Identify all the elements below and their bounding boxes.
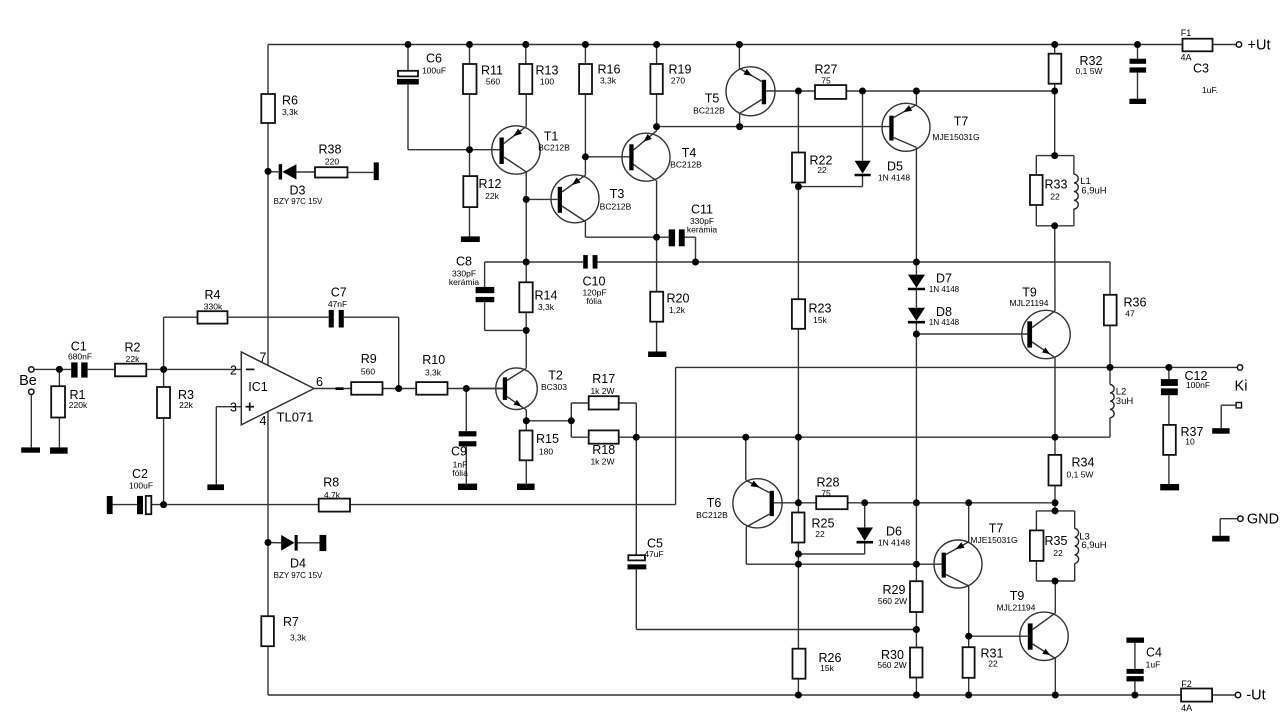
svg-text:1N 4148: 1N 4148 xyxy=(929,285,960,294)
svg-text:R14: R14 xyxy=(535,289,558,303)
svg-text:R11: R11 xyxy=(481,64,503,78)
svg-text:MJE15031G: MJE15031G xyxy=(970,535,1017,545)
svg-text:MJL21194: MJL21194 xyxy=(1009,298,1048,308)
svg-text:GND: GND xyxy=(1247,512,1279,528)
svg-text:T1: T1 xyxy=(544,130,559,144)
svg-text:22k: 22k xyxy=(179,400,193,410)
svg-text:fólia: fólia xyxy=(452,468,468,478)
svg-text:75: 75 xyxy=(821,76,831,86)
svg-text:R23: R23 xyxy=(809,302,832,316)
svg-text:1k 2W: 1k 2W xyxy=(590,386,614,396)
svg-text:100: 100 xyxy=(540,77,554,87)
svg-text:1uF.: 1uF. xyxy=(1202,85,1218,95)
svg-text:3,3k: 3,3k xyxy=(600,76,617,86)
svg-text:22k: 22k xyxy=(126,354,140,364)
svg-text:D7: D7 xyxy=(936,272,952,286)
svg-text:C8: C8 xyxy=(456,255,472,269)
svg-text:BC212B: BC212B xyxy=(670,160,702,170)
svg-text:6,9uH: 6,9uH xyxy=(1081,540,1106,551)
svg-text:7: 7 xyxy=(260,351,267,365)
svg-text:3uH: 3uH xyxy=(1116,396,1134,407)
svg-text:C2: C2 xyxy=(132,467,148,481)
svg-text:15k: 15k xyxy=(813,315,827,325)
svg-text:R33: R33 xyxy=(1045,178,1068,192)
svg-text:330k: 330k xyxy=(204,302,223,312)
svg-text:-Ut: -Ut xyxy=(1246,688,1265,704)
svg-text:T9: T9 xyxy=(1010,589,1025,603)
svg-text:T7: T7 xyxy=(954,115,969,129)
svg-text:R16: R16 xyxy=(598,63,621,77)
svg-text:22: 22 xyxy=(1050,192,1060,202)
svg-text:T3: T3 xyxy=(610,187,625,201)
svg-text:100uF: 100uF xyxy=(422,66,446,76)
svg-text:1N 4148: 1N 4148 xyxy=(878,173,910,183)
svg-text:6: 6 xyxy=(316,375,323,389)
svg-text:4,7k: 4,7k xyxy=(324,490,341,500)
svg-text:F1: F1 xyxy=(1181,28,1192,38)
svg-text:680nF: 680nF xyxy=(68,352,92,362)
svg-text:BZY 97C 15V: BZY 97C 15V xyxy=(274,571,323,580)
svg-text:kerámia: kerámia xyxy=(449,277,480,287)
svg-text:0,1 5W: 0,1 5W xyxy=(1076,66,1103,76)
svg-text:C7: C7 xyxy=(331,286,347,300)
svg-text:3,3k: 3,3k xyxy=(290,633,307,643)
svg-text:3,3k: 3,3k xyxy=(538,302,555,312)
svg-text:R19: R19 xyxy=(669,63,692,77)
svg-text:22: 22 xyxy=(988,659,998,669)
svg-text:C11: C11 xyxy=(691,203,713,217)
svg-text:R27: R27 xyxy=(815,63,838,77)
svg-text:R36: R36 xyxy=(1124,296,1147,310)
svg-text:1N 4148: 1N 4148 xyxy=(929,318,960,327)
svg-text:D5: D5 xyxy=(887,160,903,174)
svg-text:D4: D4 xyxy=(290,557,306,571)
svg-text:560 2W: 560 2W xyxy=(877,660,906,670)
svg-text:Ki: Ki xyxy=(1235,379,1248,395)
svg-text:C6: C6 xyxy=(426,52,442,66)
svg-text:1k 2W: 1k 2W xyxy=(590,457,614,467)
svg-text:BC212B: BC212B xyxy=(538,143,570,153)
svg-text:TL071: TL071 xyxy=(277,410,314,425)
svg-text:MJE15031G: MJE15031G xyxy=(932,132,979,142)
svg-text:3: 3 xyxy=(230,401,237,415)
svg-text:R17: R17 xyxy=(592,372,615,386)
svg-text:560: 560 xyxy=(361,367,375,377)
svg-text:22: 22 xyxy=(815,529,825,539)
svg-text:R6: R6 xyxy=(282,94,298,108)
svg-text:BC212B: BC212B xyxy=(693,106,725,116)
svg-text:R13: R13 xyxy=(536,64,559,78)
svg-text:3,3k: 3,3k xyxy=(282,107,299,117)
svg-text:R34: R34 xyxy=(1072,456,1095,470)
svg-text:R7: R7 xyxy=(283,615,299,629)
svg-text:4A: 4A xyxy=(1181,703,1192,713)
svg-text:220k: 220k xyxy=(69,400,88,410)
svg-text:75: 75 xyxy=(821,488,831,498)
svg-text:47nF: 47nF xyxy=(328,299,347,309)
svg-text:R35: R35 xyxy=(1045,534,1068,548)
svg-text:C10: C10 xyxy=(583,275,606,289)
svg-text:R12: R12 xyxy=(479,177,502,191)
svg-text:4: 4 xyxy=(260,414,267,428)
svg-text:R2: R2 xyxy=(125,341,141,355)
svg-text:D8: D8 xyxy=(936,305,952,319)
svg-text:T4: T4 xyxy=(682,146,697,160)
svg-text:BZY 97C 15V: BZY 97C 15V xyxy=(274,197,323,206)
svg-text:47: 47 xyxy=(1125,309,1135,319)
svg-text:BC212B: BC212B xyxy=(696,510,728,520)
svg-text:47uF: 47uF xyxy=(644,549,663,559)
svg-text:R9: R9 xyxy=(361,352,377,366)
svg-text:R29: R29 xyxy=(883,583,906,597)
svg-text:D6: D6 xyxy=(886,525,902,539)
svg-text:T2: T2 xyxy=(548,369,563,383)
svg-text:270: 270 xyxy=(671,76,685,86)
svg-text:T7: T7 xyxy=(989,522,1004,536)
svg-text:15k: 15k xyxy=(820,663,834,673)
svg-text:Be: Be xyxy=(19,373,37,389)
svg-text:T6: T6 xyxy=(707,496,722,510)
svg-text:22: 22 xyxy=(1053,548,1063,558)
svg-text:6,9uH: 6,9uH xyxy=(1081,186,1106,197)
svg-text:BC303: BC303 xyxy=(541,382,567,392)
svg-text:0,1 5W: 0,1 5W xyxy=(1067,470,1094,480)
svg-text:kerámia: kerámia xyxy=(687,225,718,235)
svg-text:R8: R8 xyxy=(323,476,339,490)
svg-text:fólia: fólia xyxy=(586,296,602,306)
svg-text:1,2k: 1,2k xyxy=(669,305,686,315)
svg-text:220: 220 xyxy=(325,157,339,167)
svg-text:560: 560 xyxy=(486,77,500,87)
svg-text:4A: 4A xyxy=(1180,53,1191,63)
svg-text:1uF: 1uF xyxy=(1146,660,1161,670)
svg-text:MJL21194: MJL21194 xyxy=(996,603,1035,613)
svg-text:BC212B: BC212B xyxy=(600,202,632,212)
svg-text:22: 22 xyxy=(817,165,827,175)
svg-text:1N 4148: 1N 4148 xyxy=(878,538,910,548)
svg-text:R10: R10 xyxy=(422,353,445,367)
svg-text:100nF: 100nF xyxy=(1186,380,1210,390)
svg-text:R38: R38 xyxy=(319,143,342,157)
svg-text:22k: 22k xyxy=(485,191,499,201)
svg-text:R20: R20 xyxy=(667,292,690,306)
svg-text:10: 10 xyxy=(1185,437,1195,447)
svg-text:D3: D3 xyxy=(290,184,306,198)
svg-text:C3: C3 xyxy=(1193,62,1209,76)
svg-text:3,3k: 3,3k xyxy=(425,368,442,378)
svg-text:C4: C4 xyxy=(1146,646,1162,660)
svg-text:+Ut: +Ut xyxy=(1248,38,1271,54)
svg-text:C9: C9 xyxy=(451,445,467,459)
svg-text:100uF: 100uF xyxy=(129,481,153,491)
svg-text:2: 2 xyxy=(230,364,237,378)
svg-text:T5: T5 xyxy=(705,92,720,106)
svg-text:R4: R4 xyxy=(205,288,221,302)
svg-text:R18: R18 xyxy=(592,443,615,457)
svg-text:F2: F2 xyxy=(1181,679,1192,689)
svg-text:R15: R15 xyxy=(536,432,559,446)
svg-text:180: 180 xyxy=(539,447,553,457)
svg-text:IC1: IC1 xyxy=(248,380,268,394)
svg-text:560 2W: 560 2W xyxy=(878,596,907,606)
